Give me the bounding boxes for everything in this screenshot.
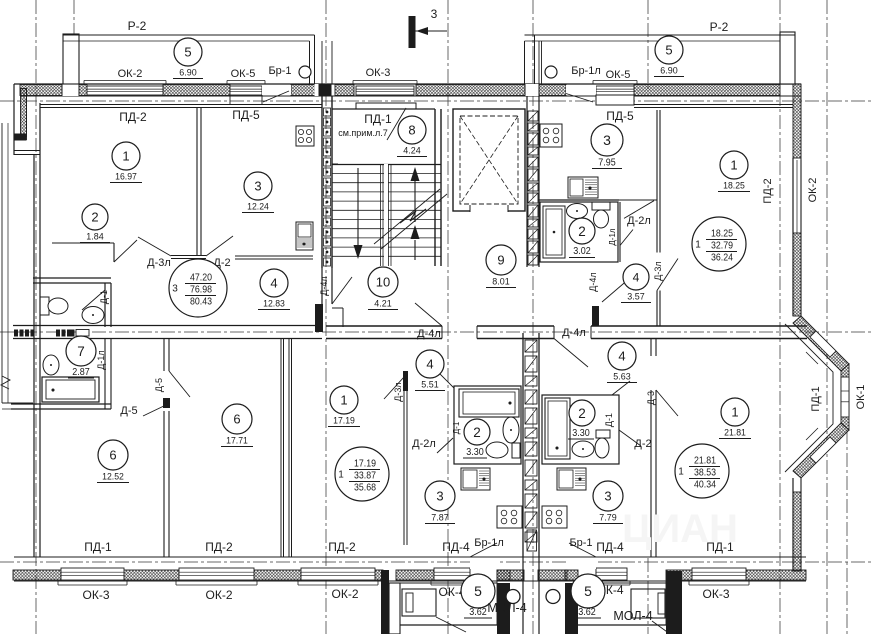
vestibule inner wall	[332, 164, 441, 166]
room 6 left	[98, 440, 128, 470]
wall top hatched segment 7	[539, 85, 566, 96]
axis vertical 1	[35, 0, 37, 634]
svg-text:Бр-1: Бр-1	[268, 65, 291, 77]
window OK-4 bottom left	[434, 568, 470, 580]
wall corridor bottom segment 1	[326, 325, 442, 327]
kitchen sink left	[296, 222, 313, 250]
svg-text:ПД-2: ПД-2	[205, 540, 233, 554]
wall top hatched segment 1	[20, 85, 62, 96]
label Br-1l top	[545, 66, 557, 78]
wall bottom hatched segment 10	[746, 570, 806, 580]
shaft through band	[522, 557, 524, 634]
stair up arrow	[414, 181, 416, 222]
room 9 hall	[486, 245, 516, 275]
room 2 bathR	[569, 400, 595, 426]
svg-text:2: 2	[578, 406, 586, 421]
door Br-1l opening	[566, 85, 596, 95]
door Br-1 leader	[263, 91, 289, 102]
room 3 kitchen left	[244, 172, 272, 200]
svg-text:6: 6	[109, 448, 116, 463]
svg-text:2: 2	[473, 425, 481, 440]
svg-text:ОК-2: ОК-2	[807, 178, 819, 203]
bay bottom window	[810, 437, 836, 463]
svg-text:Д-3: Д-3	[646, 391, 656, 405]
bath tubR	[545, 398, 570, 459]
svg-text:3.62: 3.62	[469, 607, 487, 618]
room 5 MOL right	[571, 574, 605, 608]
sum circle apt bottom right	[675, 444, 729, 498]
hall stub wall	[592, 306, 599, 326]
wall room3 bottom	[235, 255, 313, 257]
stair break line	[374, 189, 440, 244]
closet wall	[52, 242, 114, 244]
svg-text:ОК-1: ОК-1	[855, 385, 867, 410]
svg-text:3: 3	[603, 132, 611, 148]
svg-text:ОК-5: ОК-5	[231, 68, 256, 80]
small circle left	[506, 590, 520, 604]
wall top hatched segment 4	[291, 85, 317, 96]
svg-text:Д-3л: Д-3л	[393, 382, 403, 401]
stair left vent band	[324, 108, 331, 116]
wall top hatched segment 3	[163, 85, 230, 96]
kitchen sink right	[568, 177, 598, 198]
svg-text:17.19: 17.19	[354, 458, 376, 470]
svg-text:17.71: 17.71	[226, 436, 248, 446]
wall room6-room1 divider	[280, 339, 282, 558]
wall line room3 top	[197, 104, 322, 106]
svg-text:Д-4л: Д-4л	[562, 327, 586, 339]
wall top pillar gap 1	[62, 84, 79, 96]
axis vertical 1a	[73, 0, 75, 96]
svg-text:Бр-1: Бр-1	[569, 537, 592, 549]
svg-text:4: 4	[426, 357, 433, 372]
sum circle apt3	[169, 259, 227, 317]
door D-4l entry right leaf	[554, 339, 588, 368]
svg-text:ПД-1: ПД-1	[810, 386, 822, 411]
svg-text:21.81: 21.81	[694, 455, 716, 467]
svg-text:МОЛ-4: МОЛ-4	[487, 601, 526, 615]
svg-text:3: 3	[436, 489, 443, 504]
wall bottom pillar 3	[565, 570, 578, 580]
wall bottom inner face	[14, 580, 806, 582]
toilet bathR	[595, 438, 609, 458]
door D-3l mid	[384, 377, 404, 399]
svg-text:5: 5	[665, 43, 672, 58]
svg-text:3.30: 3.30	[572, 428, 590, 439]
bay top window	[810, 331, 836, 357]
door D-2 R	[619, 430, 641, 446]
window OK-2 top	[87, 86, 163, 95]
axis vertical 5b	[647, 0, 649, 90]
svg-text:3: 3	[254, 179, 261, 194]
svg-text:12.83: 12.83	[263, 299, 285, 309]
svg-text:18.25: 18.25	[711, 228, 733, 240]
wall hall4 top piece	[171, 255, 206, 257]
axis vertical 6	[779, 0, 781, 634]
room 4 hall left	[260, 269, 288, 297]
room 5 balcony right	[655, 36, 683, 64]
wall room6 divider	[163, 411, 165, 557]
wall toilet right	[104, 283, 106, 327]
axis vertical 2	[325, 0, 327, 634]
room 8 vestibule	[398, 116, 426, 144]
kitchen stoveL	[497, 506, 522, 528]
bath tub7	[42, 377, 99, 402]
svg-text:5.51: 5.51	[421, 380, 438, 390]
wall right upper segment	[792, 158, 794, 316]
svg-text:33.87: 33.87	[354, 470, 376, 482]
balcony MOL-4 right box	[578, 624, 666, 626]
wall top hatched segment 6	[416, 85, 525, 96]
axis vertical 3	[447, 0, 449, 634]
wall room1mid right stub	[403, 371, 408, 391]
window OK-5 top	[230, 86, 262, 95]
bay top diagonal	[793, 316, 849, 371]
toilet bathL	[486, 442, 508, 458]
room 7 bath	[66, 336, 96, 366]
wall top outer face	[14, 83, 801, 85]
svg-text:3: 3	[604, 489, 611, 504]
stair lower left stub	[321, 268, 323, 304]
axis horizontal C	[0, 561, 873, 563]
entrance vent block	[527, 530, 537, 551]
svg-text:17.19: 17.19	[333, 416, 355, 426]
svg-text:Д-5: Д-5	[154, 378, 164, 392]
svg-text:40.34: 40.34	[694, 479, 716, 491]
vent shaft top	[526, 96, 528, 267]
svg-text:7.79: 7.79	[599, 513, 616, 523]
svg-text:1: 1	[338, 470, 344, 481]
svg-text:80.43: 80.43	[190, 296, 212, 308]
svg-text:Бр-1л: Бр-1л	[571, 65, 601, 77]
axis vertical 7	[826, 0, 828, 634]
svg-text:ПД-5: ПД-5	[606, 109, 634, 123]
svg-text:76.98: 76.98	[190, 284, 212, 296]
svg-text:Д-2: Д-2	[634, 438, 651, 450]
svg-text:ЦИАН: ЦИАН	[622, 507, 738, 551]
wall bath clusterL box	[454, 386, 521, 464]
svg-text:3.30: 3.30	[466, 447, 484, 458]
svg-text:4: 4	[270, 276, 277, 291]
svg-text:Д-2л: Д-2л	[627, 215, 651, 227]
wall bottom hatched segment 9	[666, 570, 692, 580]
balcony left break mark	[1, 376, 10, 389]
svg-text:12.52: 12.52	[102, 472, 124, 482]
room 2 bathL	[464, 419, 490, 445]
sink bathR	[572, 441, 594, 457]
room 1 left	[112, 142, 140, 170]
wall bath7 right	[104, 339, 106, 410]
svg-text:2.87: 2.87	[72, 367, 90, 378]
axis vertical 4	[532, 0, 534, 634]
sink bath right	[567, 204, 588, 219]
svg-text:Д-3л: Д-3л	[653, 261, 663, 280]
wall bottom hatched segment 4	[375, 570, 383, 580]
room 3 kitchenR	[593, 481, 623, 511]
wall bath clusterR box	[542, 395, 619, 464]
wall bottom pillar 4	[666, 571, 682, 634]
stair down arrow	[357, 168, 359, 245]
door Br-1 bottom opening	[567, 558, 596, 569]
room 4 hall right	[623, 264, 649, 290]
svg-text:5: 5	[184, 45, 191, 60]
wall bath right top	[538, 199, 619, 201]
window sills bottom	[58, 584, 127, 586]
door D-4l left apt leaf	[332, 277, 352, 304]
door Br-1l leader	[566, 94, 593, 103]
wall bottom hatched segment 8	[596, 570, 627, 580]
room 6 mid	[222, 404, 252, 434]
svg-text:ПД-4: ПД-4	[596, 540, 624, 554]
wall bottom pillar 1	[381, 570, 389, 634]
wall right upper window	[793, 84, 801, 158]
wall bottom hatched segment 1	[13, 570, 61, 580]
svg-text:3.57: 3.57	[627, 292, 644, 302]
svg-text:1: 1	[730, 158, 737, 173]
wall bath right box	[540, 202, 618, 262]
svg-text:Д-1л: Д-1л	[608, 228, 617, 246]
room 4 hallR	[608, 342, 636, 370]
wall right lower segment	[792, 478, 794, 571]
wall left slab edge	[14, 150, 40, 152]
svg-text:ПД-2: ПД-2	[119, 110, 147, 124]
stair treads	[332, 173, 441, 175]
door D-3 bottom	[656, 390, 678, 416]
wall top inner face	[20, 95, 801, 97]
door D-3l jamb	[138, 237, 171, 256]
svg-text:4.24: 4.24	[403, 146, 420, 156]
svg-text:ОК-2: ОК-2	[206, 588, 233, 602]
wall room1R top	[655, 337, 657, 339]
wall bottom hatched segment 7	[538, 570, 567, 580]
wall left outer corner	[13, 84, 15, 155]
svg-text:ОК-3: ОК-3	[366, 67, 391, 79]
wall line room1 top	[40, 104, 197, 106]
stair bottom jamb	[332, 307, 343, 309]
window OK-3 bottom left	[61, 568, 124, 580]
svg-text:18.25: 18.25	[723, 181, 745, 191]
wall room1R divider	[650, 339, 652, 357]
svg-text:1.84: 1.84	[86, 232, 103, 242]
svg-text:8: 8	[408, 123, 415, 138]
door Br-1l bottom opening	[470, 558, 497, 569]
wall middle left segment	[91, 325, 322, 327]
sink left hall	[82, 307, 104, 324]
svg-text:Р-2: Р-2	[128, 19, 147, 33]
elevator shaft dashed	[460, 116, 518, 204]
wall room6-divider stub	[163, 398, 170, 408]
svg-text:6.90: 6.90	[179, 68, 196, 78]
door Br-1 opening	[262, 85, 291, 95]
wall bottom hatched segment 6	[497, 570, 524, 580]
svg-text:Р-2: Р-2	[710, 20, 729, 34]
door D-4l right apt	[602, 278, 630, 302]
svg-text:8.01: 8.01	[492, 277, 509, 287]
svg-text:12.24: 12.24	[247, 202, 269, 212]
bay window frame lines	[806, 352, 818, 364]
balcony left top edge	[63, 34, 315, 36]
bay right window	[841, 364, 849, 430]
window OK-3 top	[356, 86, 414, 95]
svg-text:Д-1: Д-1	[99, 290, 109, 304]
svg-text:21.81: 21.81	[724, 428, 746, 438]
toilet bath right	[592, 202, 610, 210]
svg-text:ПД-5: ПД-5	[232, 108, 260, 122]
wall middle left hatch	[13, 325, 91, 327]
kitchen sinkR	[557, 468, 586, 490]
balcony left bottom	[2, 402, 33, 404]
window sills top	[84, 80, 166, 82]
svg-text:16.97: 16.97	[115, 172, 137, 182]
svg-text:36.24: 36.24	[711, 252, 733, 264]
wall corridor bottom segment 3	[591, 325, 807, 327]
wall top pillar gap 2	[315, 84, 319, 96]
door D-1 toilet	[82, 290, 105, 310]
room 2 bath right	[569, 218, 595, 244]
svg-text:5: 5	[474, 583, 482, 599]
wall toilet top	[33, 282, 111, 284]
door D-5 hall	[119, 410, 168, 412]
kitchen stove left	[296, 126, 314, 146]
svg-text:ПД-1: ПД-1	[364, 112, 392, 126]
svg-text:1: 1	[122, 149, 129, 164]
room 2 closet	[82, 204, 108, 230]
wall bottom hatched segment 3	[254, 570, 301, 580]
wall vestibule top	[356, 103, 416, 109]
section mark 3	[409, 16, 416, 48]
svg-text:Д-2л: Д-2л	[412, 438, 436, 450]
elevator outer wall	[453, 109, 525, 211]
svg-text:4: 4	[633, 270, 640, 284]
window OK-4 bottom right	[596, 568, 627, 580]
svg-text:Д-4л: Д-4л	[417, 328, 441, 340]
svg-text:2: 2	[91, 210, 98, 225]
svg-text:ОК-2: ОК-2	[332, 587, 359, 601]
svg-text:7: 7	[77, 344, 85, 359]
svg-text:7.95: 7.95	[598, 158, 616, 169]
balcony MOL-4 left box	[400, 624, 497, 626]
svg-text:10: 10	[376, 275, 390, 290]
svg-text:9: 9	[497, 253, 504, 268]
room 3 kitchenL	[425, 481, 455, 511]
bath tub right	[543, 206, 565, 258]
svg-text:5.63: 5.63	[613, 372, 630, 382]
window OK-2 bottom 1	[179, 568, 254, 580]
vestibule walls	[332, 108, 435, 110]
wall bath7 bottom	[11, 403, 111, 405]
svg-text:1: 1	[731, 405, 738, 420]
room 1 bottom right	[721, 398, 749, 426]
svg-text:ПД-1: ПД-1	[84, 540, 112, 554]
small circle right	[546, 590, 560, 604]
room 5 MOL left	[461, 574, 495, 608]
room 1 right	[720, 151, 748, 179]
svg-text:3: 3	[431, 7, 438, 21]
svg-text:4.21: 4.21	[374, 299, 391, 309]
svg-text:2: 2	[578, 224, 586, 239]
bay bottom diagonal	[793, 423, 849, 478]
axis vertical 5	[647, 558, 649, 634]
wall bottom hatched segment 5	[396, 570, 434, 580]
door D-2l right	[624, 201, 654, 219]
stair stringer	[380, 164, 382, 266]
window OK-2 bottom 2	[301, 568, 375, 580]
svg-text:3: 3	[172, 284, 178, 295]
vent shaft bottom	[522, 333, 524, 557]
wall kitchenR-room1R divider	[656, 110, 658, 253]
wall kitchen right top	[596, 95, 634, 105]
sum circle apt bottom mid	[335, 447, 389, 501]
svg-text:Д-1л: Д-1л	[96, 350, 106, 369]
room 4 hallL	[416, 350, 444, 378]
room 10 stairs	[368, 267, 398, 297]
room 5 balcony left	[174, 38, 202, 66]
svg-text:38.53: 38.53	[694, 467, 716, 479]
svg-text:Бр-1л: Бр-1л	[474, 537, 504, 549]
wall left inner	[33, 155, 35, 557]
svg-text:35.68: 35.68	[354, 482, 376, 494]
sink bathL	[503, 417, 519, 443]
svg-text:МОЛ-4: МОЛ-4	[613, 609, 652, 623]
wall bottom hatched segment 2	[124, 570, 179, 580]
balcony MOL-4 right inner	[631, 589, 665, 618]
wall left corner block	[15, 134, 27, 141]
wall top hatched segment 8	[634, 85, 780, 96]
sink bath7	[43, 355, 59, 375]
door D-3l right	[657, 259, 678, 291]
wall top hatched segment 5	[335, 85, 354, 96]
door D-2 leaf	[206, 236, 233, 256]
svg-text:1: 1	[678, 467, 684, 478]
svg-text:5: 5	[584, 583, 592, 599]
balcony left pillar	[63, 34, 79, 84]
svg-text:7.87: 7.87	[431, 513, 448, 523]
kitchen sinkL	[461, 468, 490, 490]
svg-text:1: 1	[695, 240, 701, 251]
sum circle apt1 top	[692, 217, 746, 271]
balcony left side outer	[1, 123, 3, 403]
balcony right top edge	[525, 34, 796, 36]
wall room1mid right	[403, 391, 405, 545]
bath tubL	[459, 389, 519, 417]
svg-text:32.79: 32.79	[711, 240, 733, 252]
elevator cross	[460, 116, 518, 204]
svg-text:ПД-2: ПД-2	[328, 540, 356, 554]
door D-4l entry left leaf	[415, 303, 442, 326]
wall room1-room3 divider	[196, 107, 198, 256]
svg-text:ОК-3: ОК-3	[703, 587, 730, 601]
svg-text:1: 1	[340, 393, 347, 408]
svg-text:6.90: 6.90	[660, 66, 677, 76]
balcony MOL-4 left inner	[402, 589, 436, 616]
svg-text:47.20: 47.20	[190, 272, 212, 284]
wall bottom pillar 2	[497, 570, 510, 580]
room 1 bottom mid	[330, 386, 358, 414]
wall corridor bottom segment 2	[477, 325, 554, 327]
wall hall right stub	[619, 202, 621, 262]
wall left window band	[21, 89, 27, 137]
kitchen stoveR	[542, 506, 567, 528]
balcony right pillar	[780, 32, 795, 84]
svg-text:Д-3л: Д-3л	[147, 257, 171, 269]
axis horizontal B	[0, 331, 873, 333]
svg-text:3.02: 3.02	[573, 246, 591, 257]
wall top hatched segment 2	[79, 85, 87, 96]
axis vertical 8	[846, 430, 848, 634]
svg-text:6: 6	[233, 412, 240, 427]
room 3 kitchen right	[591, 124, 623, 156]
bay inner frame	[785, 324, 833, 472]
